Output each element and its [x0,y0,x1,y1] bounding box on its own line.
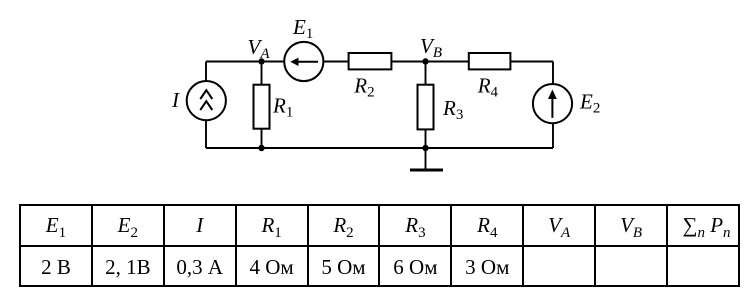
svg-text:R2: R2 [353,74,374,101]
svg-text:R1: R1 [272,93,293,120]
svg-text:I: I [171,88,180,112]
svg-text:VA: VA [248,35,271,62]
svg-text:VB: VB [420,34,442,61]
svg-text:R3: R3 [442,96,463,123]
svg-text:E2: E2 [579,90,600,117]
svg-text:R4: R4 [477,74,499,101]
svg-text:E1: E1 [292,15,313,42]
